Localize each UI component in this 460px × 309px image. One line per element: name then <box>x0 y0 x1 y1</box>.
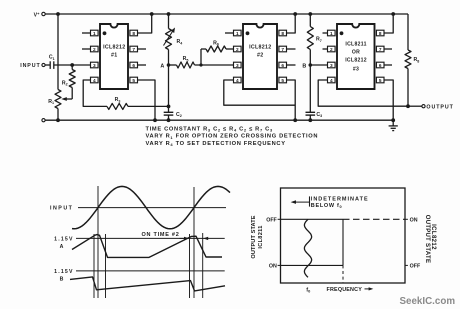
svg-text:OUTPUT: OUTPUT <box>426 105 453 111</box>
svg-text:7: 7 <box>132 47 135 53</box>
wire: IC1 pin 2 stub <box>82 48 91 50</box>
wire: IC2 pin 8 to V+ rail <box>287 12 298 33</box>
svg-text:B: B <box>60 276 64 282</box>
svg-text:4: 4 <box>236 78 239 84</box>
circuit notes text <box>146 126 319 147</box>
resistor R3 <box>107 97 128 109</box>
svg-text:OR: OR <box>352 49 360 55</box>
svg-text:OUTPUT STATE: OUTPUT STATE <box>424 215 430 263</box>
svg-text:ICL8212: ICL8212 <box>249 45 271 51</box>
svg-text:ICL8211: ICL8211 <box>345 41 366 47</box>
svg-text:ICL8212: ICL8212 <box>103 45 125 51</box>
svg-text:OFF: OFF <box>266 217 277 223</box>
wire: IC3 pin 5 to ground rail <box>384 80 395 122</box>
ground symbol <box>389 120 398 130</box>
svg-text:INPUT: INPUT <box>50 206 73 212</box>
wire: IC1 pin 5 to ground rail <box>138 80 157 122</box>
svg-text:1: 1 <box>236 31 239 37</box>
wire: V+ to R1 branch <box>56 12 60 122</box>
svg-text:2: 2 <box>330 47 333 53</box>
graph OFF level line with dashed extension <box>281 218 406 220</box>
svg-text:ON TIME #2: ON TIME #2 <box>141 232 179 238</box>
svg-text:SeekIC.com: SeekIC.com <box>400 296 456 307</box>
svg-text:ICL8211: ICL8211 <box>258 225 264 248</box>
wire: IC1 pin 1 stub <box>82 32 91 34</box>
svg-text:VARY R4 TO SET DETECTION FREQU: VARY R4 TO SET DETECTION FREQUENCY <box>146 141 286 147</box>
svg-text:B: B <box>302 64 306 70</box>
svg-text:OFF: OFF <box>410 264 421 270</box>
wire: C1 to IC1 pin 3 <box>54 63 91 67</box>
resistor R5 <box>169 56 234 68</box>
svg-text:1.15V: 1.15V <box>54 236 74 242</box>
svg-text:INPUT: INPUT <box>20 63 40 69</box>
graph right ON/OFF labels <box>405 217 421 269</box>
svg-text:4: 4 <box>330 78 333 84</box>
svg-text:#1: #1 <box>111 53 118 59</box>
svg-text:ON: ON <box>269 264 277 270</box>
waveform plot: 1.15V A threshold axis <box>54 236 225 249</box>
svg-text:3: 3 <box>330 63 333 69</box>
capacitor C2 <box>164 112 182 122</box>
waveform plot: ON TIME #2 label and arrows <box>141 232 208 240</box>
wire: IC1 pin 6 stub <box>138 64 146 66</box>
wire: IC2 pin 4 loop to pin 5 <box>224 80 295 105</box>
graph step transition <box>342 219 344 283</box>
wire: IC1 pin 4 feedback loop <box>83 80 107 106</box>
svg-text:6: 6 <box>379 63 382 69</box>
svg-text:INDETERMINATE: INDETERMINATE <box>311 196 369 202</box>
svg-text:8: 8 <box>132 31 135 37</box>
waveform plot: 1.15V B threshold axis <box>54 269 225 283</box>
svg-text:TIME CONSTANT R3 C2 ≤ R4 C2 ≤: TIME CONSTANT R3 C2 ≤ R4 C2 ≤ R7 C3 <box>146 126 273 132</box>
svg-text:A: A <box>60 244 64 250</box>
svg-text:3: 3 <box>236 63 239 69</box>
svg-text:OUTPUT STATE: OUTPUT STATE <box>251 215 257 258</box>
waveform plot: input sine wave <box>72 186 230 228</box>
node B <box>302 50 327 70</box>
svg-text:6: 6 <box>132 63 135 69</box>
wire: R3 to node A line <box>128 105 170 109</box>
svg-text:8: 8 <box>281 31 284 37</box>
op-amp U2 ICL8212 #2 (8-pin DIP) <box>234 24 287 89</box>
resistor R8 pull-up <box>405 14 419 108</box>
resistor R1 (potentiometer) <box>48 90 61 109</box>
svg-text:1: 1 <box>330 31 333 37</box>
svg-text:7: 7 <box>379 47 382 53</box>
svg-text:6: 6 <box>281 63 284 69</box>
graph INDETERMINATE BELOW f0 note with arrow <box>291 196 369 209</box>
waveform plot: trace B <box>70 277 225 291</box>
svg-text:FREQUENCY: FREQUENCY <box>327 287 363 293</box>
svg-text:7: 7 <box>281 47 284 53</box>
INPUT terminal <box>20 63 45 69</box>
svg-text:ON: ON <box>410 217 418 223</box>
svg-text:1: 1 <box>93 31 96 37</box>
svg-text:2: 2 <box>236 47 239 53</box>
svg-text:A: A <box>160 64 164 70</box>
svg-text:2: 2 <box>93 47 96 53</box>
graph ON level line <box>281 264 344 266</box>
svg-text:5: 5 <box>281 78 284 84</box>
svg-text:1.15V: 1.15V <box>54 269 74 275</box>
wire: IC3 pin 7 stub <box>384 48 392 50</box>
svg-text:4: 4 <box>93 78 96 84</box>
waveform plot: trace A <box>72 235 222 258</box>
svg-text:ICL8212: ICL8212 <box>430 224 437 250</box>
svg-text:VARY R1 FOR OPTION ZERO CROSSI: VARY R1 FOR OPTION ZERO CROSSING DETECTI… <box>146 134 319 140</box>
capacitor C3 <box>306 65 323 122</box>
wire: IC1 pin 8 to V+ rail <box>138 12 154 33</box>
wire: IC3 pin 4 to OUTPUT <box>318 80 408 106</box>
resistor R7 from V+ rail <box>307 12 321 49</box>
graph left OFF/ON labels <box>266 217 280 269</box>
wire: IC3 pin 6 stub <box>384 64 392 66</box>
svg-text:5: 5 <box>379 78 382 84</box>
wire: V+ top supply rail <box>45 13 408 15</box>
svg-text:3: 3 <box>93 63 96 69</box>
wire: IC2 pin 6 stub <box>287 64 296 66</box>
wire: ground bottom rail <box>42 119 393 122</box>
wire: IC2 pin 7 stub <box>287 48 296 50</box>
resistor R6 to IC2 pin 2 <box>199 40 233 66</box>
V+ supply terminal <box>34 11 46 18</box>
graph right axis title OUTPUT STATE ICL8212 <box>424 215 437 263</box>
svg-text:#3: #3 <box>353 66 359 72</box>
svg-text:BELOW f0: BELOW f0 <box>311 203 343 209</box>
node A <box>160 50 170 70</box>
graph indeterminate wavy line at f0 <box>304 219 311 277</box>
wire: node A to C2 <box>168 65 170 112</box>
waveform plot: INPUT sine axis <box>50 206 226 212</box>
svg-text:ICL8212: ICL8212 <box>345 58 367 64</box>
op-amp U1 ICL8212 #1 (8-pin DIP) <box>91 24 138 89</box>
graph left axis title OUTPUT STATE ICL8211 <box>251 215 264 258</box>
OUTPUT terminal <box>408 105 454 111</box>
graph FREQUENCY axis label <box>327 287 374 293</box>
wire: IC3 pin 1 stub <box>323 32 328 34</box>
svg-text:#2: #2 <box>257 53 264 59</box>
waveform plot: crossing marker lines <box>94 186 203 298</box>
svg-text:8: 8 <box>379 31 382 37</box>
resistor R4 (variable) from V+ rail <box>164 12 183 49</box>
resistor R2 with wiper arrow to R1 <box>61 65 75 101</box>
capacitor C1 <box>45 55 54 69</box>
wire: IC2 pin 1 stub <box>225 32 233 34</box>
frequency response graph box <box>281 188 406 283</box>
wire: IC2 pin 5 to ground rail <box>287 80 298 122</box>
svg-text:5: 5 <box>132 78 135 84</box>
op-amp U3 ICL8211/ICL8212 #3 (8-pin DIP) <box>328 24 385 89</box>
wire: IC3 pin 8 to V+ rail <box>384 12 395 33</box>
wire: IC1 pin 7 stub <box>138 48 146 50</box>
wire: IC3 pin 2 stub <box>323 48 328 50</box>
